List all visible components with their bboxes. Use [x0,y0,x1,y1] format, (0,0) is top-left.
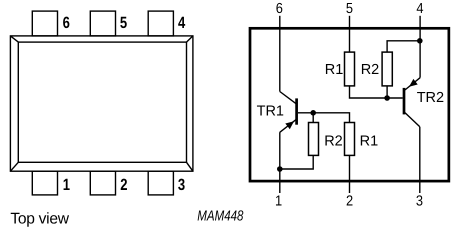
wire TR2 collector to pin 3 lead [419,127,421,193]
wire TR1 base bus [298,113,350,123]
svg-text:R1: R1 [325,62,344,78]
svg-text:4: 4 [416,1,423,17]
bevel top-right [187,36,193,42]
wire R1 top bottom to TR2 base [350,86,403,98]
bevel bottom-right [187,162,193,171]
pin 2 pad [90,171,115,195]
pin 4 pad [148,11,173,36]
svg-text:R2: R2 [324,134,343,150]
svg-text:5: 5 [120,14,127,32]
svg-text:3: 3 [178,176,185,194]
svg-text:1: 1 [63,176,70,194]
wire R2 top to pin 4 node [387,41,420,52]
junction node TR1 base [310,110,316,116]
wire TR1 emitter to pin 1 lead [279,132,281,193]
wire node 1 to R2 bottom resistor [280,156,313,169]
pin 3 pad [148,171,173,195]
svg-text:6: 6 [276,1,283,17]
svg-text:2: 2 [120,176,127,194]
svg-text:3: 3 [416,193,423,209]
package outline outer (top view) [10,36,193,171]
resistor R1 (top) [345,52,355,86]
svg-text:Top view: Top view [10,210,69,227]
svg-text:R1: R1 [360,134,379,150]
schematic border [250,28,449,181]
wire pin 4 lead to TR2 emitter [419,16,421,78]
svg-text:5: 5 [346,1,353,17]
package outline inner [18,42,186,162]
bevel top-left [10,36,18,42]
junction node pin 1 / TR1 emitter [277,166,283,172]
junction node R2 top / TR2 base [384,95,390,101]
svg-text:MAM448: MAM448 [197,209,244,225]
wire pin 5 lead to R1 top [349,16,351,52]
svg-text:2: 2 [346,193,353,209]
wire R2 top bottom stub [386,86,388,98]
bevel bottom-left [10,162,18,171]
pin 1 pad [32,171,57,195]
wire R2 bottom top stub [312,113,314,123]
svg-text:1: 1 [275,193,282,209]
pin 5 pad [90,11,115,36]
svg-text:TR2: TR2 [417,90,444,106]
svg-text:4: 4 [178,14,185,32]
junction node pin 4 / R2 top [417,38,423,44]
wire pin 2 lead from R1 bottom [349,155,351,193]
svg-text:TR1: TR1 [257,104,284,120]
svg-text:6: 6 [63,14,70,32]
resistor R2 (bottom) [309,123,319,156]
resistor R1 (bottom) [345,123,355,156]
transistor TR1 [280,92,297,133]
transistor TR2 [404,78,420,127]
resistor R2 (top) [382,52,392,86]
svg-text:R2: R2 [361,62,380,78]
pin 6 pad [32,11,57,36]
wire pin 6 lead to TR1 collector [279,16,281,92]
